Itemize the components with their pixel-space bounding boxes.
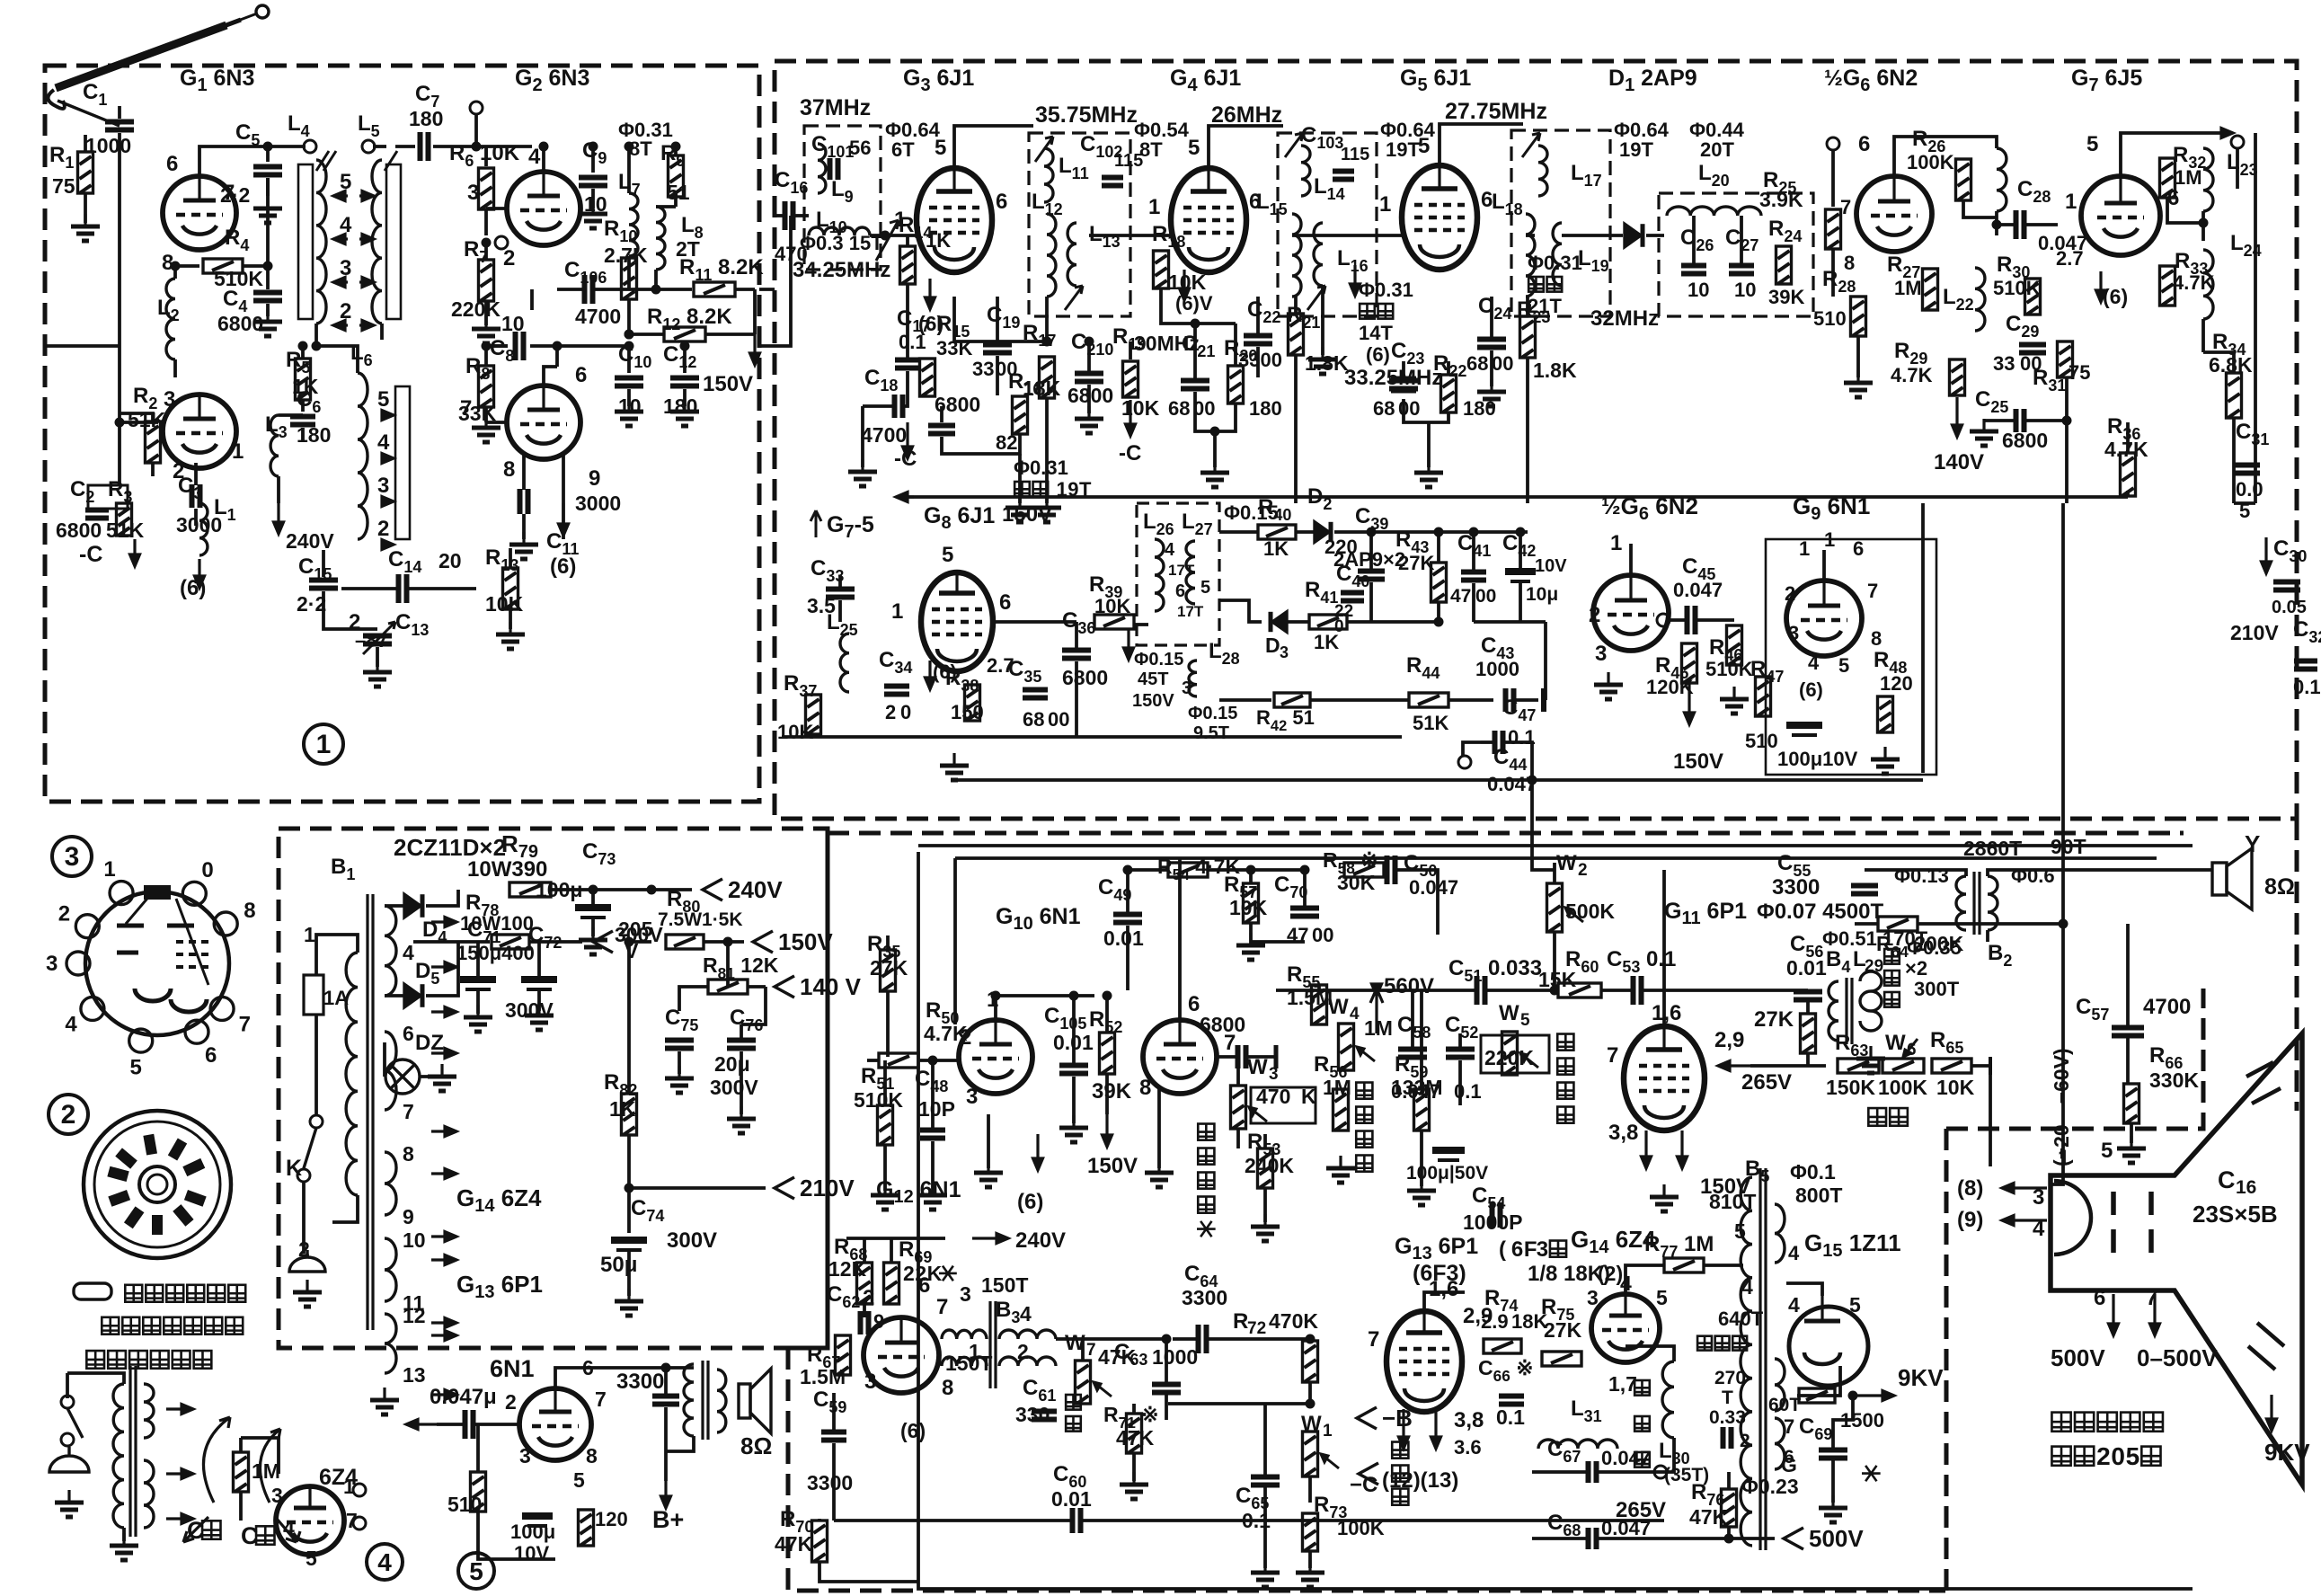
text vertical linearity <box>1557 1034 1573 1051</box>
electrolytic capacitor C71 symbol <box>460 980 496 989</box>
svg-text:Φ0.6: Φ0.6 <box>2011 864 2055 887</box>
capacitor C48 symbol <box>920 1130 945 1139</box>
svg-text:68: 68 <box>1168 397 1190 420</box>
resistor R35 symbol <box>881 950 896 991</box>
wire <box>775 214 784 217</box>
wire <box>243 264 268 268</box>
svg-text:33: 33 <box>972 358 994 380</box>
capacitor C34 symbol <box>884 687 909 695</box>
ground C105 <box>1059 1115 1088 1142</box>
resistor R68 symbol <box>857 1263 873 1304</box>
svg-text:21T: 21T <box>1528 295 1562 317</box>
svg-text:5: 5 <box>1656 1286 1668 1309</box>
resistor R21 symbol <box>1289 314 1304 355</box>
transformer B5 secondary bottom <box>1775 1359 1785 1411</box>
wire <box>704 940 744 944</box>
wire <box>484 146 488 166</box>
svg-text:5: 5 <box>1520 1011 1530 1030</box>
wire to G3 grid <box>870 234 917 237</box>
svg-text:1000: 1000 <box>1475 658 1519 680</box>
wire <box>1132 1453 1136 1481</box>
svg-text:3,8: 3,8 <box>1454 1408 1484 1432</box>
antenna <box>48 5 269 126</box>
svg-text:3.9K: 3.9K <box>1759 188 1803 211</box>
wire <box>118 483 121 485</box>
wire <box>122 1528 126 1541</box>
resistor R9 symbol <box>669 155 684 197</box>
wire <box>413 940 490 944</box>
resistor R36 symbol <box>2121 453 2136 496</box>
transformer B4 core <box>1847 978 1852 1044</box>
wire to B2 <box>1865 870 1966 876</box>
svg-text:W: W <box>1885 1031 1906 1055</box>
transformer B5 tertiary <box>1775 1418 1785 1469</box>
text vertical sync <box>1198 1124 1214 1140</box>
wire <box>654 270 658 289</box>
capacitor C55 symbol <box>1851 886 1878 894</box>
diode D2 symbol <box>1315 522 1331 542</box>
wire <box>239 1438 243 1452</box>
inductor L31 winding <box>1538 1440 1617 1449</box>
svg-text:75: 75 <box>52 174 75 198</box>
legend box <box>74 1283 111 1299</box>
resistor R66 symbol <box>2124 1084 2139 1123</box>
inductor L27 winding <box>1186 541 1195 604</box>
wire <box>426 890 458 906</box>
wire <box>1458 1033 1462 1049</box>
wire <box>376 647 379 667</box>
ground C74 <box>615 1289 643 1316</box>
transformer B3 winding lower <box>942 1357 987 1366</box>
svg-text:2: 2 <box>885 701 896 723</box>
capacitor C16 symbol <box>785 201 793 230</box>
svg-text:0.1: 0.1 <box>2293 676 2321 698</box>
svg-text:2: 2 <box>298 1237 310 1261</box>
tap arrow <box>359 235 374 244</box>
capacitor C57 symbol <box>2112 1028 2144 1036</box>
svg-text:Φ0.13: Φ0.13 <box>1894 864 1949 887</box>
wire <box>2065 377 2069 421</box>
wire <box>301 428 305 440</box>
wire <box>794 214 809 217</box>
wire <box>1193 324 1197 380</box>
svg-text:3300: 3300 <box>616 1370 664 1394</box>
wire <box>1458 1060 1462 1105</box>
wire <box>509 548 512 568</box>
wire L2 bottom <box>173 359 177 377</box>
svg-text:3: 3 <box>1182 678 1192 698</box>
wire <box>651 888 692 891</box>
capacitor C62 symbol <box>861 1311 869 1334</box>
text horizontal output <box>1634 1380 1650 1396</box>
transformer B3 winding lower right <box>999 1357 1056 1366</box>
wire <box>627 346 631 373</box>
svg-text:1M: 1M <box>1364 1016 1393 1040</box>
wire <box>420 1075 436 1078</box>
svg-text:240V: 240V <box>1015 1228 1066 1253</box>
svg-text:0: 0 <box>2111 1442 2125 1470</box>
svg-text:8: 8 <box>244 899 255 923</box>
plug symbol <box>289 1250 325 1272</box>
inductor L11 winding <box>1044 148 1053 202</box>
wire <box>484 243 488 259</box>
tuning arrow <box>1307 286 1325 310</box>
svg-text:6: 6 <box>166 152 178 176</box>
wire <box>1472 532 1475 572</box>
wire <box>279 413 303 417</box>
inductor L1 winding <box>199 503 208 555</box>
wire <box>1294 297 1298 313</box>
wire <box>867 1059 879 1062</box>
wire <box>838 575 842 589</box>
wire <box>591 918 595 936</box>
capacitor C69 symbol <box>1819 1450 1847 1459</box>
capacitor C33 symbol <box>826 590 855 598</box>
capacitor symbol <box>1723 1427 1732 1449</box>
wire box1 to box2 <box>759 288 775 291</box>
wire <box>385 904 404 908</box>
svg-text:F: F <box>1524 1237 1537 1262</box>
wire <box>1515 698 1538 702</box>
wire <box>1954 137 1997 148</box>
resistor R50 symbol <box>879 1053 918 1068</box>
spec <box>1360 304 1375 319</box>
wire <box>1251 923 1305 942</box>
svg-text:500V: 500V <box>1809 1525 1864 1552</box>
inductor L4 winding <box>316 160 326 324</box>
svg-text:1: 1 <box>1323 1422 1333 1441</box>
ground B1 <box>370 1388 399 1414</box>
tuning arrow <box>1522 133 1540 157</box>
tap arrow <box>431 1127 456 1137</box>
transformer secondary region4a <box>144 1384 154 1438</box>
wire <box>591 189 595 208</box>
capacitor C75 symbol <box>665 1041 694 1049</box>
ground C4 <box>253 309 282 336</box>
wire <box>1321 286 1324 355</box>
electrolytic capacitor C42 symbol <box>1505 572 1536 581</box>
svg-text:10K: 10K <box>1936 1076 1975 1099</box>
ground R16 <box>1005 495 1034 522</box>
svg-text:1M: 1M <box>2175 166 2202 189</box>
svg-text:3: 3 <box>960 1282 971 1306</box>
wire <box>1601 989 1632 992</box>
wire <box>1081 1339 1085 1361</box>
svg-text:8T: 8T <box>1139 138 1163 161</box>
trap box L9 L10 <box>804 126 881 270</box>
svg-text:(6): (6) <box>550 554 576 579</box>
arrow 9KV <box>2267 1395 2277 1431</box>
wire <box>1219 530 1258 534</box>
wire <box>627 389 631 406</box>
svg-text:470K: 470K <box>1269 1309 1318 1333</box>
svg-text:7: 7 <box>239 1013 251 1037</box>
svg-text:0.01: 0.01 <box>1051 1487 1092 1511</box>
svg-text:8Ω: 8Ω <box>740 1432 772 1459</box>
wire <box>735 288 755 291</box>
svg-text:(6): (6) <box>900 1419 926 1442</box>
tube G11 6P1 pentode <box>1624 1026 1705 1130</box>
svg-text:7: 7 <box>1784 1415 1794 1438</box>
wire <box>1472 583 1475 622</box>
arrow 560V <box>1372 984 1382 996</box>
capacitor C106 symbol <box>585 275 593 304</box>
wire <box>67 1373 124 1384</box>
wire <box>683 389 687 406</box>
svg-text:2860T: 2860T <box>1963 837 2022 860</box>
electrolytic capacitor C73 symbol <box>575 908 611 918</box>
arrow 8 <box>2002 1184 2047 1193</box>
resistor R47 symbol <box>1756 677 1771 716</box>
wire <box>883 1060 887 1105</box>
wire <box>629 1186 766 1190</box>
wire <box>1806 1000 1810 1014</box>
wire <box>627 1135 631 1233</box>
wire right vertical <box>2061 503 2065 924</box>
switch region4 <box>61 1396 74 1408</box>
capacitor C44 symbol <box>1495 731 1503 754</box>
svg-text:Φ0.15: Φ0.15 <box>1188 704 1237 723</box>
svg-text:K: K <box>286 1156 302 1181</box>
wire R11 to R12 <box>753 289 757 334</box>
svg-text:5: 5 <box>1734 1219 1746 1243</box>
arrow G11 <box>1678 1130 1688 1168</box>
wire <box>1696 618 1734 622</box>
wire <box>1087 341 1091 373</box>
resistor R2 symbol <box>146 421 161 463</box>
resistor 1M symbol <box>234 1452 249 1492</box>
resistor R52 symbol <box>1100 1033 1115 1074</box>
resistor R42 symbol <box>1274 693 1310 707</box>
svg-text:2: 2 <box>505 1390 517 1414</box>
capacitor C28 symbol <box>2016 210 2024 239</box>
wire <box>395 145 415 148</box>
svg-text:2: 2 <box>58 902 70 927</box>
wire <box>931 1060 935 1130</box>
wire G2b plate <box>544 367 557 386</box>
tap arrow <box>431 1169 456 1179</box>
capacitor C67 symbol <box>1589 1461 1597 1483</box>
svg-text:10: 10 <box>1734 279 1756 301</box>
wire <box>1072 1077 1076 1123</box>
svg-text:4: 4 <box>1020 1302 1032 1326</box>
svg-text:5: 5 <box>573 1468 585 1492</box>
wire G10b cathode <box>1157 1089 1161 1168</box>
wire <box>266 146 270 162</box>
capacitor C58 symbol <box>1398 1050 1427 1058</box>
ground R28 <box>1844 370 1873 397</box>
wire <box>2167 198 2203 223</box>
arrow (6) G2b <box>559 503 569 536</box>
svg-text:0.047: 0.047 <box>1409 876 1458 899</box>
fuse 1A <box>304 975 323 1015</box>
label brightness <box>1868 1108 1886 1126</box>
arrow 9KV <box>1853 1391 1894 1401</box>
svg-text:5: 5 <box>2126 1442 2140 1470</box>
capacitor C23 symbol <box>1389 381 1418 389</box>
capacitor C20 symbol <box>1075 374 1103 382</box>
svg-text:4: 4 <box>1788 1293 1800 1317</box>
wire <box>726 942 730 987</box>
circled number 4 <box>367 1544 403 1580</box>
arrow -C <box>903 422 913 458</box>
wire <box>996 297 999 344</box>
svg-text:8Ω: 8Ω <box>2264 874 2295 900</box>
terminal 210V <box>775 1177 794 1199</box>
svg-text:510: 510 <box>1813 307 1847 330</box>
wire <box>437 1423 464 1426</box>
svg-text:4.7K: 4.7K <box>1891 364 1933 386</box>
wire G4 grid <box>1089 234 1170 237</box>
wire <box>277 476 280 503</box>
arrow bus <box>896 492 914 502</box>
svg-text:56: 56 <box>849 137 871 159</box>
wire G2b cathode <box>562 454 565 539</box>
svg-text:3: 3 <box>377 474 389 498</box>
ground C73 <box>579 927 607 954</box>
wire <box>476 989 480 1014</box>
arrow winding a <box>166 1405 193 1414</box>
svg-text:2.7K: 2.7K <box>604 244 648 267</box>
wire C67 row <box>1598 1438 1674 1472</box>
wire <box>266 304 270 316</box>
wire R70 top <box>818 1519 821 1521</box>
svg-text:2: 2 <box>1017 1340 1029 1363</box>
wire <box>1692 216 1696 265</box>
svg-text:1: 1 <box>969 1340 980 1363</box>
wire G10b plate up <box>1178 858 1182 1020</box>
wire <box>194 509 198 526</box>
resistor R51 symbol <box>878 1105 893 1145</box>
ground C75 <box>665 1066 694 1093</box>
capacitor C3 symbol <box>192 484 200 508</box>
wire <box>883 1145 887 1191</box>
resistor R40 symbol <box>1258 525 1296 539</box>
wire <box>151 463 155 476</box>
svg-text:W: W <box>1556 851 1577 875</box>
wire <box>705 332 755 336</box>
spec <box>1528 277 1544 292</box>
wire <box>1997 223 2015 226</box>
capacitor C60 symbol <box>1073 1508 1081 1533</box>
inductor L7 winding <box>629 193 638 256</box>
svg-text:205: 205 <box>618 918 653 941</box>
wire R70 bottom <box>819 1562 918 1582</box>
transformer primary region4 <box>113 1384 124 1528</box>
wire <box>118 106 121 119</box>
svg-text:5: 5 <box>377 387 389 412</box>
wire L27 to D3 <box>1219 600 1262 622</box>
wire <box>530 940 582 944</box>
transformer B2 secondary <box>1988 876 1998 930</box>
resistor R63 symbol <box>1838 1059 1879 1073</box>
wire <box>385 994 404 997</box>
wire <box>1308 1382 1312 1404</box>
resistor R54 symbol <box>1168 863 1208 877</box>
svg-text:9: 9 <box>873 1310 884 1333</box>
resistor R60 symbol <box>1558 983 1601 997</box>
capacitor C26 symbol <box>1681 266 1706 274</box>
resistor R28 symbol <box>1851 297 1866 336</box>
svg-text:7: 7 <box>595 1388 607 1411</box>
svg-text:7: 7 <box>1086 1341 1096 1360</box>
wire L2 top <box>173 266 177 279</box>
svg-text:00: 00 <box>1048 708 1069 731</box>
tube G2a 6N3 triode <box>507 172 580 245</box>
tap arrow <box>431 1318 456 1328</box>
svg-text:0.05: 0.05 <box>2272 598 2307 617</box>
svg-text:20μ: 20μ <box>714 1052 750 1076</box>
electrolytic capacitor symbol <box>1786 725 1822 735</box>
svg-text:140V: 140V <box>1934 450 1984 474</box>
svg-text:1,7: 1,7 <box>1608 1372 1637 1396</box>
wire <box>2201 319 2205 352</box>
capacitor C63 symbol <box>1152 1385 1181 1393</box>
terminal 150V <box>753 931 773 953</box>
inductor L16 winding <box>1314 223 1323 286</box>
G9 cell box <box>1766 539 1936 775</box>
resistor R73 symbol <box>1303 1513 1318 1551</box>
tube 6N1 region5 <box>519 1388 591 1460</box>
svg-text:51K: 51K <box>1413 712 1448 734</box>
wire <box>890 1238 893 1263</box>
wire <box>1173 1337 1197 1341</box>
wire <box>194 463 198 485</box>
svg-text:330: 330 <box>1015 1403 1050 1426</box>
terminal 240V <box>703 879 722 900</box>
svg-text:82: 82 <box>996 431 1017 454</box>
wire <box>1308 1551 1312 1568</box>
tube G6a 6N2 triode <box>1856 176 1932 252</box>
electrolytic capacitor 100u symbol <box>522 1516 553 1526</box>
tap arrow <box>381 540 394 550</box>
svg-text:1: 1 <box>103 857 115 882</box>
svg-text:0.1: 0.1 <box>899 331 926 353</box>
wire <box>1287 620 1309 624</box>
capacitor C15 symbol <box>309 581 338 589</box>
svg-text:47K: 47K <box>1116 1426 1155 1450</box>
wire <box>1963 200 1997 217</box>
wire <box>1075 622 1078 650</box>
wire <box>1236 1129 1240 1148</box>
arrow heater G4 <box>1180 270 1190 300</box>
ground DZ <box>428 1064 456 1091</box>
arrow 9 <box>2002 1216 2047 1226</box>
svg-text:150T: 150T <box>981 1273 1028 1297</box>
circled number 2 <box>49 1095 88 1134</box>
svg-text:640T: 640T <box>1718 1308 1764 1330</box>
ground L16 <box>1308 347 1337 374</box>
capacitor C9 symbol <box>579 178 607 186</box>
potentiometer W3 symbol <box>1231 1086 1246 1129</box>
svg-text:2: 2 <box>1589 603 1600 627</box>
svg-text:6800: 6800 <box>56 519 102 542</box>
wire <box>863 1238 866 1263</box>
svg-text:G9 6N1: G9 6N1 <box>1793 492 1870 524</box>
ground plug 2 <box>55 1490 84 1517</box>
capacitor C103 symbol <box>1333 172 1354 180</box>
wire <box>1087 385 1091 413</box>
svg-text:6800: 6800 <box>2002 429 2048 452</box>
wire <box>537 989 541 1011</box>
tap arrow <box>359 278 374 288</box>
resistor R6 symbol <box>479 168 494 209</box>
resistor R70 symbol <box>812 1521 828 1562</box>
wire <box>952 297 956 341</box>
svg-text:3: 3 <box>1269 1065 1279 1084</box>
svg-text:0.0: 0.0 <box>2236 478 2263 501</box>
arrow 240V <box>972 1234 1008 1244</box>
